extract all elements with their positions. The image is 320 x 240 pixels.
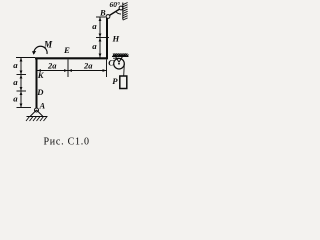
rope from beam to pulley (hidden behind ceiling bracket in source) — [113, 57, 119, 59]
pulley ceiling line — [112, 56, 129, 58]
horizontal beam — [35, 57, 108, 59]
rope from pulley to weight — [123, 64, 126, 76]
wall hatching — [123, 2, 128, 20]
right column B — [106, 17, 108, 59]
horizontal dim arrowheads — [37, 69, 107, 72]
hinge circle at wall — [119, 6, 123, 10]
left column AD — [36, 58, 38, 109]
svg-text:2a: 2a — [83, 61, 93, 71]
svg-text:2a: 2a — [47, 61, 57, 71]
moment M arrowhead — [32, 51, 36, 55]
svg-text:60°: 60° — [110, 0, 121, 9]
wall line — [122, 3, 124, 20]
weight P rectangle — [120, 76, 127, 89]
svg-text:a: a — [92, 41, 97, 51]
left dim tick K level — [17, 74, 27, 76]
hinge circle at B — [106, 15, 110, 19]
svg-text:B: B — [99, 8, 106, 18]
right dimension vertical line — [99, 17, 101, 58]
svg-text:E: E — [63, 45, 70, 55]
svg-text:a: a — [13, 94, 18, 104]
svg-text:A: A — [39, 101, 46, 111]
svg-text:a: a — [13, 77, 18, 87]
pulley C circle — [114, 58, 125, 69]
left dim bottom tick — [17, 107, 32, 109]
angle arc 60deg — [116, 11, 121, 14]
left dimension vertical line — [20, 58, 22, 108]
svg-text:C: C — [108, 58, 114, 68]
svg-text:M: M — [43, 39, 53, 49]
horizontal dimension line — [37, 70, 107, 72]
left dim arrowheads — [20, 58, 23, 108]
right dim arrowheads — [99, 17, 102, 58]
left dim top tick — [16, 57, 35, 59]
pulley bracket — [116, 57, 123, 63]
svg-text:H: H — [112, 34, 120, 44]
right dim top tick — [96, 16, 106, 18]
ground hatching at A — [26, 117, 47, 122]
svg-text:P: P — [112, 76, 118, 86]
pin support A triangle — [30, 110, 43, 117]
pulley hub — [118, 63, 120, 65]
right dim end tick below beam — [106, 60, 108, 78]
moment M arc — [34, 46, 47, 54]
pulley ceiling hatching — [113, 54, 129, 57]
ground line at A — [27, 116, 48, 118]
svg-text:a: a — [92, 21, 97, 31]
svg-text:Рис. С1.0: Рис. С1.0 — [44, 136, 90, 147]
svg-text:a: a — [13, 60, 18, 70]
svg-text:D: D — [36, 87, 43, 97]
E tick below beam — [67, 60, 69, 78]
rod B-wall at 60 deg — [110, 9, 121, 16]
pin support A circle — [35, 108, 39, 112]
right dim mid tick (H level) — [96, 37, 109, 39]
left dim tick D level — [17, 90, 27, 92]
